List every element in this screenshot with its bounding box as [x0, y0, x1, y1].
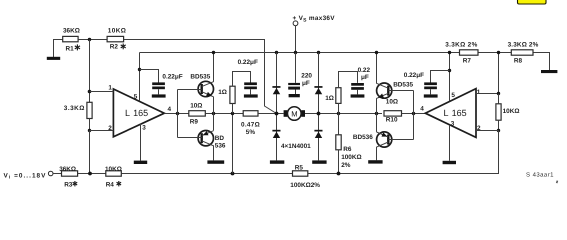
ground (below C4)	[424, 94, 438, 97]
ground (below D2)	[270, 160, 284, 163]
node motor-left	[275, 112, 279, 116]
diode D4 (bottom right)	[314, 130, 322, 138]
wire 3.3K to pin2 node	[89, 119, 91, 131]
resistor R9 10Ω	[189, 103, 206, 126]
wire 10K leads	[498, 94, 500, 104]
node emitter junction (left)	[212, 112, 215, 115]
resistor 3.3KΩ	[64, 102, 92, 118]
wire emitter Q1 to output node	[213, 97, 215, 114]
capacitor 220uF	[288, 53, 312, 95]
wire zobel node down (motor line to bottom rail)	[232, 115, 234, 174]
wire pin 3 (left) to ground	[140, 124, 142, 161]
wire right diode column	[318, 53, 320, 114]
wire zobel bottom lead (right)	[338, 103, 340, 113]
svg-text:R3: R3	[64, 181, 73, 188]
svg-text:+ VS max36V: + VS max36V	[293, 15, 336, 23]
ground (pin 3 right)	[443, 161, 456, 164]
node rail/pin5	[448, 51, 451, 54]
svg-text:5%: 5%	[246, 129, 256, 136]
svg-text:2: 2	[477, 125, 481, 132]
node bottom/R6	[337, 172, 341, 176]
svg-text:R2: R2	[110, 44, 119, 51]
wire collector Q2 to output node	[213, 114, 215, 131]
terminal Vi input	[4, 171, 54, 180]
diode D1 (top left)	[272, 86, 280, 94]
node rail/right diode	[317, 51, 320, 54]
node cap C4 tap	[448, 69, 451, 72]
node motor-right	[317, 112, 321, 116]
ground (below D4)	[312, 160, 326, 163]
resistor R7 3.3KΩ 2%	[445, 41, 478, 64]
wire pin 5 (left) with rail corner	[139, 53, 141, 102]
node rail/Q3 collector	[375, 51, 378, 54]
svg-text:0.47Ω: 0.47Ω	[241, 122, 260, 129]
wire collector Q1 to rail	[213, 53, 215, 82]
svg-text:3: 3	[451, 121, 455, 128]
transistor Q2 BD536 (left bottom)	[178, 131, 226, 150]
wire base vertical (left pair)	[177, 90, 179, 138]
svg-text:S 43aar1: S 43aar1	[526, 171, 554, 178]
node pin1 tap	[88, 90, 92, 94]
resistor R8 3.3KΩ 2%	[508, 41, 539, 64]
node R1/R2 junction	[88, 38, 91, 41]
wire zobel bridge to C2	[233, 72, 251, 87]
ground (below Q2)	[207, 160, 224, 163]
transistor Q3 BD535 (right top)	[377, 82, 414, 99]
wire R9 to 0.47 node	[205, 113, 243, 115]
svg-text:10KΩ: 10KΩ	[503, 108, 520, 115]
svg-text:BD: BD	[215, 135, 225, 142]
wire +Vs supply rail	[140, 52, 460, 54]
resistor R6 100KΩ 2%	[336, 135, 362, 169]
terminal +Vs max36V	[293, 15, 336, 52]
wire pin 1 (right) to rail	[476, 53, 499, 94]
capacitor C4 0.22uF	[404, 71, 450, 95]
node base junction (right)	[412, 112, 415, 115]
svg-text:μF: μF	[302, 80, 310, 87]
svg-text:Vi =0...18V: Vi =0...18V	[4, 172, 47, 180]
svg-text:4×1N4001: 4×1N4001	[281, 143, 311, 150]
diode D3 (top right)	[314, 86, 322, 94]
svg-text:R7: R7	[463, 58, 472, 65]
svg-text:100KΩ2%: 100KΩ2%	[290, 182, 320, 189]
wire pin 2	[90, 130, 114, 132]
ground (below C2)	[244, 94, 258, 97]
wire below motor-right node through diode to ground	[318, 114, 320, 161]
svg-text:4: 4	[168, 106, 172, 113]
wire pin 3 (right) to ground	[449, 125, 451, 161]
wire R3-R4	[78, 173, 106, 175]
node bottom/zobel feedback	[231, 172, 235, 176]
node rail/220uF junction	[294, 51, 297, 54]
wire pin 1	[90, 91, 114, 93]
wire op-amp1 output	[164, 113, 189, 115]
wire R6 leads	[338, 114, 340, 135]
svg-text:10Ω: 10Ω	[190, 103, 202, 110]
svg-text:R10: R10	[386, 117, 398, 124]
svg-text:μF: μF	[361, 74, 369, 81]
capacitor C2 0.22uF	[238, 59, 258, 94]
node zobel junction (left)	[231, 112, 234, 115]
wire zobel bridge to C3	[339, 72, 358, 88]
wire below motor-left node through diode to ground	[276, 114, 278, 161]
resistor R4 10KΩ	[105, 166, 122, 188]
wire bottom rail	[53, 173, 62, 175]
transistor Q1 BD535 (left top)	[178, 73, 214, 97]
node pin1/10K top	[497, 92, 500, 95]
resistor 1Ω (left zobel)	[218, 86, 235, 103]
wire input divider vertical	[89, 40, 91, 103]
wire base vertical (right pair)	[413, 91, 415, 140]
svg-text:1Ω: 1Ω	[325, 95, 334, 102]
wire emitter Q3 to output node	[376, 98, 378, 113]
svg-text:10Ω: 10Ω	[386, 99, 398, 106]
node rail/Q1 collector	[212, 51, 215, 54]
svg-text:R8: R8	[514, 58, 523, 65]
svg-text:M: M	[291, 109, 297, 118]
node bottom/input divider	[88, 172, 92, 176]
wire left diode column	[276, 53, 278, 114]
op-amp U2 L165 (right)	[425, 89, 476, 138]
wire motor to right node	[305, 113, 382, 115]
speck mark	[556, 180, 558, 183]
ground (below C1)	[152, 94, 166, 97]
resistor 1Ω (right zobel)	[325, 88, 341, 104]
wire R5 to right corner	[308, 173, 499, 175]
wire pin2 node down to bottom rail	[89, 131, 91, 174]
svg-text:BD536: BD536	[353, 134, 373, 141]
svg-text:220: 220	[301, 73, 312, 80]
svg-text:36KΩ: 36KΩ	[63, 28, 80, 35]
node zobel junction (right)	[337, 112, 340, 115]
wire R4 to R5	[121, 173, 292, 175]
node cap C1 tap	[138, 68, 141, 71]
wire rail segment R7-R8	[478, 52, 511, 54]
svg-text:R9: R9	[190, 118, 199, 125]
svg-text:10KΩ: 10KΩ	[105, 166, 122, 173]
svg-text:BD535: BD535	[393, 82, 413, 89]
resistor 10KΩ (feedback)	[496, 104, 520, 120]
svg-text:0.22μF: 0.22μF	[238, 59, 258, 66]
svg-text:100KΩ: 100KΩ	[341, 154, 361, 161]
svg-text:3: 3	[142, 124, 146, 131]
svg-text:R1: R1	[66, 45, 75, 52]
diode D2 (bottom left)	[272, 130, 280, 138]
ground (below C3)	[351, 94, 365, 97]
svg-text:L 165: L 165	[444, 108, 467, 118]
svg-text:5: 5	[451, 92, 455, 99]
resistor R1 36KΩ	[63, 28, 80, 53]
ground (below Q4)	[368, 160, 382, 163]
resistor 0.47Ω 5%	[241, 111, 260, 137]
svg-text:0.22: 0.22	[358, 67, 371, 74]
wire collector Q4 to output node	[376, 114, 378, 132]
wire emitter Q4 to ground	[376, 147, 378, 160]
svg-text:5: 5	[134, 94, 138, 101]
svg-text:536: 536	[215, 142, 226, 149]
capacitor C1 0.22uF	[140, 70, 183, 95]
resistor R5 100KΩ 2%	[290, 164, 320, 188]
node pin2/10K bottom	[497, 129, 500, 132]
svg-text:0.22μF: 0.22μF	[404, 72, 424, 79]
wire 0.47 to motor-left node	[258, 113, 284, 115]
svg-text:BD535: BD535	[190, 73, 210, 80]
svg-text:0.22μF: 0.22μF	[162, 74, 182, 81]
wire zobel bottom lead	[232, 104, 234, 114]
op-amp U1 L165 (left)	[113, 89, 164, 137]
resistor R2 10KΩ	[107, 28, 126, 51]
node pin2 junction	[88, 129, 91, 132]
svg-text:4: 4	[420, 106, 424, 113]
svg-text:1: 1	[108, 84, 112, 91]
ground (after R8)	[541, 70, 557, 73]
wire collector Q3 to rail	[376, 53, 378, 84]
motor M	[284, 107, 305, 121]
wire emitter Q2 to ground	[213, 145, 215, 160]
node output/base junction	[176, 112, 179, 115]
capacitor C3 0.22uF	[351, 67, 370, 95]
svg-text:3.3KΩ 2%: 3.3KΩ 2%	[445, 41, 477, 48]
svg-text:3.3KΩ 2%: 3.3KΩ 2%	[508, 41, 539, 48]
svg-text:R5: R5	[295, 164, 304, 171]
yellow highlight marker	[518, 0, 547, 4]
svg-text:10KΩ: 10KΩ	[108, 28, 126, 35]
svg-text:1Ω: 1Ω	[218, 89, 227, 96]
svg-text:36KΩ: 36KΩ	[59, 166, 76, 173]
wire pin 2 (right)	[476, 130, 499, 132]
svg-text:L 165: L 165	[125, 108, 148, 118]
resistor R3 36KΩ	[59, 166, 77, 188]
wire R1 to node	[78, 39, 107, 41]
ground (pin 3 left)	[134, 161, 147, 164]
svg-text:R4: R4	[106, 181, 115, 188]
wire R2 to right corner, down and diagonal to motor-left node	[124, 40, 277, 114]
node rail/left diode	[275, 51, 278, 54]
resistor R10 10Ω	[384, 99, 402, 124]
ground (below 220uF)	[289, 94, 300, 97]
node emitter junction (right)	[375, 112, 378, 115]
wire R10 to op-amp2	[402, 113, 426, 115]
node rail/pin1 divider	[497, 51, 500, 54]
transistor Q4 BD536 (right bottom)	[353, 132, 414, 147]
svg-text:1: 1	[477, 89, 481, 96]
ground (left of R1)	[47, 40, 63, 60]
svg-text:R6: R6	[343, 146, 352, 153]
wire rail after R8 to ground	[533, 53, 550, 71]
svg-text:3.3KΩ: 3.3KΩ	[64, 105, 85, 112]
wire pin 5 (right) to rail	[449, 53, 451, 102]
wire pin2 node down to bottom rail	[498, 131, 501, 174]
svg-text:2%: 2%	[341, 162, 351, 169]
